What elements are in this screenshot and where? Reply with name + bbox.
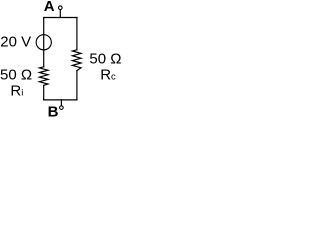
wire top rail — [44, 17, 77, 19]
resistor Ri zigzag — [39, 67, 48, 86]
wire right branch upper — [76, 18, 78, 50]
wire left branch upper — [43, 18, 45, 67]
resistor Rc zigzag — [72, 50, 81, 71]
node B terminal circle — [60, 106, 64, 110]
svg-text:50 Ω: 50 Ω — [89, 50, 121, 67]
wire left branch lower — [43, 85, 45, 100]
svg-text:50 Ω: 50 Ω — [0, 66, 32, 83]
svg-text:B: B — [48, 104, 59, 119]
svg-text:A: A — [44, 0, 55, 15]
wire node B stub — [60, 100, 62, 106]
wire bottom rail — [44, 99, 77, 101]
wire node A stub — [59, 10, 61, 18]
node A terminal circle — [59, 6, 63, 10]
svg-text:Rc: Rc — [100, 67, 116, 84]
svg-text:Ri: Ri — [10, 82, 23, 99]
wire right branch lower — [76, 71, 78, 100]
svg-text:20 V: 20 V — [0, 33, 31, 50]
voltage source V 20V — [36, 35, 51, 50]
